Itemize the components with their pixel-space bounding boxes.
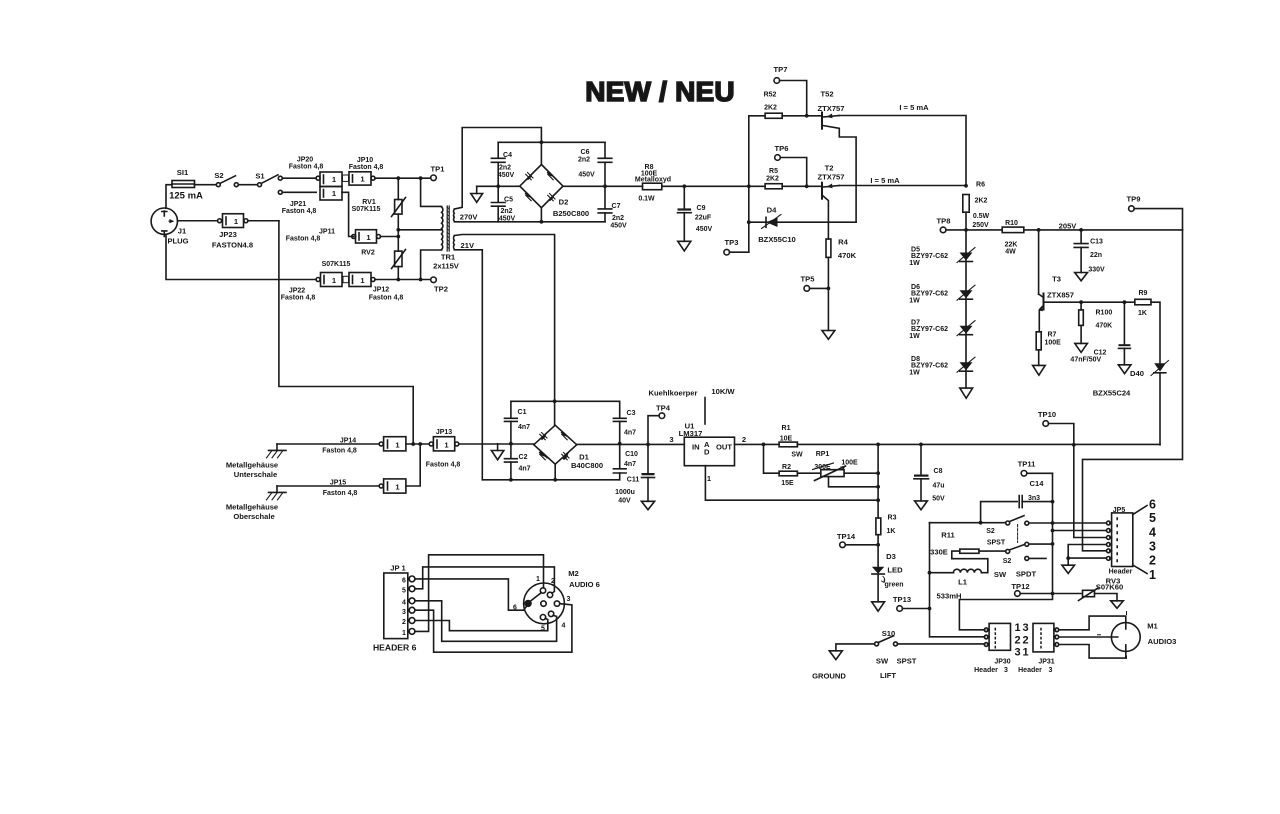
- svg-text:TP2: TP2: [434, 285, 448, 294]
- chassis ground Metallgehaeuse Unterschale: [226, 444, 286, 479]
- svg-text:10K/W: 10K/W: [711, 387, 735, 396]
- svg-text:OUT: OUT: [716, 443, 732, 452]
- svg-text:S2: S2: [214, 171, 223, 180]
- svg-text:3: 3: [567, 596, 571, 603]
- svg-text:S07K115: S07K115: [352, 206, 381, 213]
- svg-text:22n: 22n: [1090, 252, 1102, 259]
- svg-text:470K: 470K: [838, 251, 857, 260]
- svg-text:40V: 40V: [618, 498, 631, 505]
- svg-text:4n7: 4n7: [518, 424, 530, 431]
- svg-text:470K: 470K: [1096, 323, 1113, 330]
- svg-text:HEADER 6: HEADER 6: [373, 643, 417, 653]
- svg-text:R11: R11: [941, 531, 955, 540]
- varistor RV3 S07K60: [1079, 577, 1124, 609]
- svg-text:B250C800: B250C800: [553, 209, 589, 218]
- svg-text:5: 5: [1149, 511, 1156, 525]
- svg-text:L1: L1: [958, 578, 968, 587]
- svg-text:S2: S2: [986, 528, 995, 535]
- svg-text:JP10: JP10: [357, 157, 373, 164]
- svg-text:Unterschale: Unterschale: [234, 470, 277, 479]
- svg-text:C5: C5: [504, 197, 513, 204]
- connector JP15 Faston 4,8: [277, 479, 406, 497]
- svg-text:TP12: TP12: [1011, 582, 1029, 591]
- wire top line to S2: [930, 522, 1006, 524]
- wire D1 plus rail to LM317: [577, 443, 685, 445]
- svg-text:M1: M1: [1147, 622, 1158, 631]
- resistor R7 100E: [1036, 332, 1061, 366]
- svg-text:RP1: RP1: [816, 451, 830, 458]
- resistor R52 2K2: [749, 92, 821, 119]
- resistor R9 1K: [1135, 290, 1160, 363]
- zener D40 BZX55C24: [1093, 361, 1169, 445]
- zener D6 BZY97-C62: [909, 284, 975, 304]
- trimmer RP1 100E: [813, 451, 879, 487]
- svg-text:ZTX857: ZTX857: [1047, 291, 1074, 300]
- svg-text:AUDIO3: AUDIO3: [1148, 637, 1177, 646]
- switch S10 SW SPST LIFT: [836, 629, 985, 680]
- svg-text:S1: S1: [255, 172, 265, 181]
- transistor T52 ZTX757: [817, 90, 856, 223]
- svg-text:4n7: 4n7: [624, 430, 636, 437]
- svg-text:TP3: TP3: [725, 238, 739, 247]
- svg-text:1: 1: [1022, 646, 1028, 658]
- test point TP5: [801, 275, 829, 292]
- svg-text:JP13: JP13: [436, 429, 452, 436]
- wire JP1 pin4 to M2 pin4: [415, 601, 557, 642]
- resistor R10 22K 4W: [966, 220, 1183, 256]
- wire T3 base line: [1044, 301, 1135, 303]
- ground below zener chain: [960, 388, 973, 398]
- connector JP5 Header: [1107, 498, 1157, 583]
- svg-text:LED: LED: [887, 566, 903, 575]
- wire JP31 pin2 to M1 left: [1059, 636, 1112, 638]
- wire 270V top to bridge D2: [454, 128, 541, 210]
- svg-text:R52: R52: [764, 92, 777, 99]
- ground at S10: [812, 651, 846, 681]
- test point TP3: [724, 238, 749, 255]
- capacitor C5 2n2 450V: [491, 186, 515, 222]
- svg-text:10E: 10E: [780, 436, 793, 443]
- wire D2 bottom AC line: [454, 208, 605, 222]
- connector JP22 Faston 4,8: [281, 261, 351, 302]
- transformer TR1 2x115V: [421, 178, 479, 279]
- switch S1: [255, 172, 282, 195]
- connector M1 AUDIO3: [1098, 612, 1177, 659]
- svg-text:Faston 4,8: Faston 4,8: [322, 448, 357, 455]
- heatsink Kuehlkoerper 10K/W: [649, 387, 736, 424]
- svg-text:1W: 1W: [909, 297, 920, 304]
- resistor R3 1K: [876, 444, 897, 566]
- wire plug to JP23: [178, 220, 218, 222]
- svg-text:D2: D2: [559, 198, 569, 207]
- svg-text:50V: 50V: [932, 496, 945, 503]
- svg-text:TP1: TP1: [431, 165, 446, 174]
- svg-text:100E: 100E: [1045, 340, 1062, 347]
- gang link S2: [1017, 525, 1019, 543]
- svg-text:205V: 205V: [1059, 222, 1078, 231]
- svg-text:C14: C14: [1030, 479, 1045, 488]
- svg-text:2K2: 2K2: [975, 198, 988, 205]
- svg-text:2n2: 2n2: [500, 208, 512, 215]
- capacitor C14 3n3: [981, 479, 1053, 523]
- svg-text:2n2: 2n2: [578, 157, 590, 164]
- svg-text:C1: C1: [518, 409, 527, 416]
- wire JP12 to TP2: [375, 279, 431, 281]
- svg-text:JP12: JP12: [373, 287, 389, 294]
- svg-text:D3: D3: [886, 552, 896, 561]
- svg-text:RV2: RV2: [361, 250, 375, 257]
- capacitor C10 4n7: [613, 444, 638, 480]
- wire 21V top AC to bridge D1: [454, 235, 554, 426]
- svg-text:D4: D4: [767, 206, 777, 215]
- wire zener chain: [965, 230, 967, 388]
- svg-text:Kuehlkoerper: Kuehlkoerper: [649, 389, 698, 398]
- svg-text:2K2: 2K2: [766, 176, 779, 183]
- svg-text:S07K60: S07K60: [1096, 583, 1123, 592]
- resistor R100 470K: [1075, 302, 1113, 352]
- wire D1 bottom AC line: [483, 464, 619, 480]
- svg-text:C4: C4: [503, 152, 512, 159]
- svg-text:Metallgehäuse: Metallgehäuse: [226, 503, 278, 512]
- svg-text:2: 2: [742, 435, 746, 444]
- svg-text:450V: 450V: [610, 223, 627, 230]
- wire LM317 ADJ: [705, 466, 878, 501]
- svg-text:22K: 22K: [1005, 242, 1018, 249]
- wire JP1 pin1 to M2 pin1: [415, 555, 544, 632]
- connector JP10 Faston 4,8: [343, 157, 384, 185]
- svg-text:C7: C7: [612, 203, 621, 210]
- svg-text:C2: C2: [519, 454, 528, 461]
- svg-text:Faston 4,8: Faston 4,8: [286, 236, 321, 243]
- capacitor C13 22n 330V: [1074, 230, 1105, 281]
- capacitor C9 22uF 450V: [678, 186, 713, 251]
- connector JP13 Faston 4,8: [426, 429, 461, 469]
- wire 21V bottom AC down: [454, 250, 482, 480]
- svg-text:47nF/50V: 47nF/50V: [1070, 357, 1101, 364]
- svg-text:BZX55C24: BZX55C24: [1093, 389, 1131, 398]
- svg-text:3: 3: [1014, 646, 1020, 658]
- svg-text:2K2: 2K2: [764, 105, 777, 112]
- svg-text:1W: 1W: [909, 369, 920, 376]
- svg-text:C8: C8: [934, 468, 943, 475]
- wire center tap to transformer: [398, 229, 441, 231]
- wire JP1 pin6 to M2 pin6: [415, 579, 527, 610]
- svg-text:T52: T52: [820, 90, 833, 99]
- svg-text:SPDT: SPDT: [1016, 570, 1037, 579]
- svg-text:R5: R5: [769, 168, 778, 175]
- svg-text:JP23: JP23: [219, 230, 237, 239]
- svg-text:TP10: TP10: [1038, 410, 1056, 419]
- switch S2: [214, 171, 238, 187]
- transistor T3 ZTX857: [1038, 230, 1074, 332]
- inductor L1 533mH: [930, 551, 988, 600]
- capacitor C7 2n2 450V: [598, 186, 627, 229]
- svg-text:1K: 1K: [887, 528, 896, 535]
- wire S1 to JP21: [282, 191, 316, 193]
- svg-text:Header: Header: [1018, 667, 1042, 674]
- svg-text:R100: R100: [1096, 310, 1113, 317]
- svg-text:TP14: TP14: [837, 532, 856, 541]
- svg-text:JP22: JP22: [289, 288, 305, 295]
- wire JP31 pin3 to M1 bottom: [1059, 645, 1126, 659]
- svg-text:15E: 15E: [781, 480, 794, 487]
- svg-text:Faston 4,8: Faston 4,8: [426, 462, 461, 469]
- svg-text:533mH: 533mH: [937, 592, 962, 601]
- svg-text:450V: 450V: [696, 226, 713, 233]
- svg-text:S10: S10: [882, 629, 896, 638]
- svg-text:SW: SW: [994, 570, 1007, 579]
- svg-text:1W: 1W: [909, 260, 920, 267]
- svg-text:LIFT: LIFT: [880, 671, 896, 680]
- fuse SI1: [169, 168, 203, 202]
- svg-text:T2: T2: [825, 164, 834, 173]
- svg-text:Faston 4,8: Faston 4,8: [281, 295, 316, 302]
- svg-text:1: 1: [402, 630, 406, 637]
- svg-text:3: 3: [402, 609, 406, 616]
- svg-text:270V: 270V: [460, 212, 479, 221]
- test point TP9: [1127, 195, 1183, 230]
- svg-text:D: D: [704, 448, 710, 457]
- wire JP1 pin5 to M2 pin2: [415, 567, 555, 593]
- resistor R1 10E: [779, 425, 1160, 447]
- ground below R4: [822, 331, 835, 340]
- test point TP10: [1038, 410, 1105, 538]
- test point TP7: [774, 65, 807, 116]
- LED D3 green: [872, 552, 904, 602]
- node vertical to JP30 pin2: [930, 523, 985, 637]
- connector M2 AUDIO 6: [513, 569, 600, 633]
- svg-text:2: 2: [402, 619, 406, 626]
- svg-text:4: 4: [1149, 526, 1156, 540]
- wire JP15 riser to JP14 line: [406, 444, 420, 486]
- zener D7 BZY97-C62: [909, 320, 975, 340]
- svg-text:IN: IN: [692, 443, 700, 452]
- svg-text:Faston 4,8: Faston 4,8: [282, 208, 317, 215]
- wire JP10 to TP1: [375, 177, 431, 179]
- test point TP14: [837, 532, 878, 548]
- wire D2 inner top: [498, 141, 605, 143]
- svg-text:450V: 450V: [578, 172, 595, 179]
- svg-text:4: 4: [402, 599, 406, 606]
- svg-text:1W: 1W: [909, 333, 920, 340]
- svg-text:C12: C12: [1094, 350, 1107, 357]
- test point TP2: [431, 277, 448, 294]
- svg-text:TP9: TP9: [1127, 195, 1141, 204]
- svg-text:T3: T3: [1052, 275, 1061, 284]
- svg-text:R10: R10: [1005, 220, 1018, 227]
- wire left rail of T52 cell: [748, 116, 750, 252]
- wire JP23 to PE vertical: [248, 220, 279, 222]
- svg-text:3: 3: [669, 435, 673, 444]
- capacitor C12 47nF/50V: [1070, 302, 1130, 373]
- plug J1: [151, 208, 189, 246]
- svg-text:450V: 450V: [498, 172, 515, 179]
- svg-text:R4: R4: [838, 238, 848, 247]
- svg-text:ZTX757: ZTX757: [817, 104, 844, 113]
- svg-text:Faston 4,8: Faston 4,8: [289, 164, 324, 171]
- capacitor C1 4n7: [505, 401, 531, 443]
- zener D4 BZX55C10: [749, 206, 856, 245]
- ground below LED: [872, 602, 885, 611]
- test point TP11: [1018, 460, 1053, 477]
- ground at JP5 pins 1+3: [1062, 545, 1106, 574]
- svg-text:0.5W: 0.5W: [973, 213, 990, 220]
- svg-text:1: 1: [1149, 568, 1156, 582]
- svg-text:JP31: JP31: [1038, 659, 1054, 666]
- svg-text:3: 3: [1022, 622, 1028, 634]
- svg-text:R2: R2: [782, 464, 791, 471]
- wire D1 inner top: [511, 400, 620, 402]
- wire PE path down to JP14 line: [279, 221, 413, 444]
- svg-text:AUDIO 6: AUDIO 6: [569, 580, 600, 589]
- test point TP13: [893, 595, 930, 611]
- svg-text:Metalloxyd: Metalloxyd: [635, 177, 671, 184]
- svg-text:3n3: 3n3: [1028, 495, 1040, 502]
- test point TP4: [648, 404, 671, 445]
- svg-text:TP13: TP13: [893, 595, 911, 604]
- connector JP20 Faston 4,8: [289, 157, 342, 187]
- svg-text:R1: R1: [782, 425, 791, 432]
- transistor T2 ZTX757: [817, 164, 844, 240]
- svg-text:R9: R9: [1139, 290, 1148, 297]
- svg-text:C6: C6: [581, 149, 590, 156]
- svg-text:JP15: JP15: [330, 480, 346, 487]
- resistor R6 2K2 0.5W 250V: [963, 182, 990, 230]
- wire fuse left to plug: [166, 185, 172, 209]
- svg-text:D40: D40: [1130, 369, 1144, 378]
- svg-text:100E: 100E: [841, 460, 858, 467]
- svg-text:TP7: TP7: [774, 65, 788, 74]
- connector JP21 Faston 4,8: [282, 187, 342, 216]
- svg-text:SW: SW: [876, 657, 889, 666]
- wire JP13 to D1 rail: [459, 443, 534, 445]
- varistor RV1 S07K115: [352, 178, 406, 230]
- svg-text:TP6: TP6: [775, 144, 789, 153]
- connector JP14 Faston 4,8: [277, 437, 406, 455]
- svg-text:C3: C3: [627, 410, 636, 417]
- svg-text:R7: R7: [1048, 332, 1057, 339]
- wire JP11 to varistor rail: [381, 230, 399, 237]
- svg-text:Faston 4,8: Faston 4,8: [369, 295, 404, 302]
- wire D2 plus rail to R8: [563, 185, 643, 187]
- wire main HV rail R8 to R5: [662, 185, 765, 187]
- svg-text:LM317: LM317: [679, 429, 703, 438]
- resistor R2 15E: [764, 444, 821, 487]
- svg-text:2n2: 2n2: [612, 215, 624, 222]
- svg-text:C10: C10: [625, 451, 638, 458]
- svg-text:3: 3: [1049, 667, 1053, 674]
- svg-text:2: 2: [1014, 635, 1020, 647]
- wire JP31 pin1 to M1 top: [1059, 616, 1126, 630]
- resistor R5 2K2: [765, 168, 820, 189]
- svg-text:Header: Header: [1109, 569, 1133, 576]
- wire T2 emitter rail I=5mA: [839, 185, 966, 187]
- switch S2 upper SPST: [986, 516, 1105, 547]
- svg-text:Oberschale: Oberschale: [233, 512, 274, 521]
- zener D5 BZY97-C62: [909, 247, 975, 267]
- svg-text:SPST: SPST: [897, 657, 917, 666]
- ground at D1 bridge minus: [491, 444, 503, 460]
- svg-text:NEW / NEU: NEW / NEU: [585, 76, 735, 107]
- svg-text:C9: C9: [697, 205, 706, 212]
- chassis ground Metallgehaeuse Oberschale: [226, 486, 286, 521]
- ground at D2 bridge minus: [471, 186, 483, 202]
- svg-text:BZX55C10: BZX55C10: [758, 235, 796, 244]
- connector JP1 HEADER 6: [373, 564, 417, 653]
- svg-text:330E: 330E: [930, 548, 948, 557]
- svg-text:JP14: JP14: [340, 438, 356, 445]
- svg-text:M2: M2: [568, 569, 579, 578]
- svg-text:FASTON4.8: FASTON4.8: [212, 241, 253, 250]
- svg-text:250V: 250V: [972, 222, 989, 229]
- wire S2 to S1: [238, 184, 257, 186]
- regulator U1 LM317: [669, 422, 746, 484]
- bridge rectifier D2 B250C800: [520, 165, 589, 219]
- svg-text:JP11: JP11: [319, 229, 335, 236]
- svg-text:I = 5 mA: I = 5 mA: [870, 176, 900, 185]
- svg-text:21V: 21V: [461, 241, 475, 250]
- svg-text:2x115V: 2x115V: [433, 262, 460, 271]
- test point TP8: [937, 217, 966, 233]
- svg-text:RV1: RV1: [362, 199, 376, 206]
- svg-text:R6: R6: [976, 182, 985, 189]
- resistor R4 470K: [826, 238, 857, 331]
- svg-text:6: 6: [402, 578, 406, 585]
- test point TP12: [1011, 582, 1081, 596]
- svg-text:3: 3: [1004, 667, 1008, 674]
- wire LM317 OUT rail: [735, 443, 780, 445]
- varistor RV2 S07K115: [361, 237, 405, 280]
- zener D8 BZY97-C62: [909, 356, 975, 376]
- svg-text:JP20: JP20: [297, 157, 313, 164]
- wire plug bottom line: [166, 234, 316, 279]
- svg-text:2: 2: [1149, 554, 1156, 568]
- svg-text:J1: J1: [178, 227, 187, 236]
- svg-text:R3: R3: [888, 515, 897, 522]
- wire JP1 pin3 to M2 pin3: [415, 604, 572, 653]
- svg-text:TP8: TP8: [937, 217, 951, 226]
- svg-text:22uF: 22uF: [695, 215, 712, 222]
- svg-text:SPST: SPST: [987, 540, 1006, 547]
- switch S2 lower SPDT SW: [994, 542, 1053, 579]
- connector JP11 Faston 4,8: [286, 229, 381, 244]
- connector JP23 FASTON4.8: [212, 214, 253, 250]
- svg-text:B40C800: B40C800: [571, 461, 603, 470]
- svg-text:JP 1: JP 1: [390, 564, 406, 573]
- svg-text:JP5: JP5: [1113, 507, 1126, 514]
- svg-text:TR1: TR1: [441, 253, 456, 262]
- svg-text:S07K115: S07K115: [322, 261, 351, 268]
- connector JP12 Faston 4,8: [343, 273, 403, 302]
- wire right rail down to JP5 pin2: [1083, 230, 1183, 551]
- svg-text:47u: 47u: [932, 483, 944, 490]
- svg-text:green: green: [884, 582, 903, 589]
- svg-text:TP5: TP5: [801, 275, 816, 284]
- svg-text:3: 3: [1149, 540, 1156, 554]
- wire T52 emitter top rail I=5mA: [839, 116, 966, 186]
- svg-text:C13: C13: [1090, 239, 1103, 246]
- svg-text:SI1: SI1: [177, 168, 189, 177]
- svg-text:2: 2: [1022, 635, 1028, 647]
- svg-text:TP11: TP11: [1018, 460, 1037, 469]
- svg-text:TP4: TP4: [656, 404, 671, 413]
- svg-text:Metallgehäuse: Metallgehäuse: [226, 461, 278, 470]
- capacitor C11 1000u 40V: [615, 444, 655, 509]
- svg-text:6: 6: [1149, 498, 1156, 512]
- svg-text:4: 4: [562, 623, 566, 630]
- svg-text:0.1W: 0.1W: [638, 196, 655, 203]
- wire S1 to JP20: [282, 177, 316, 179]
